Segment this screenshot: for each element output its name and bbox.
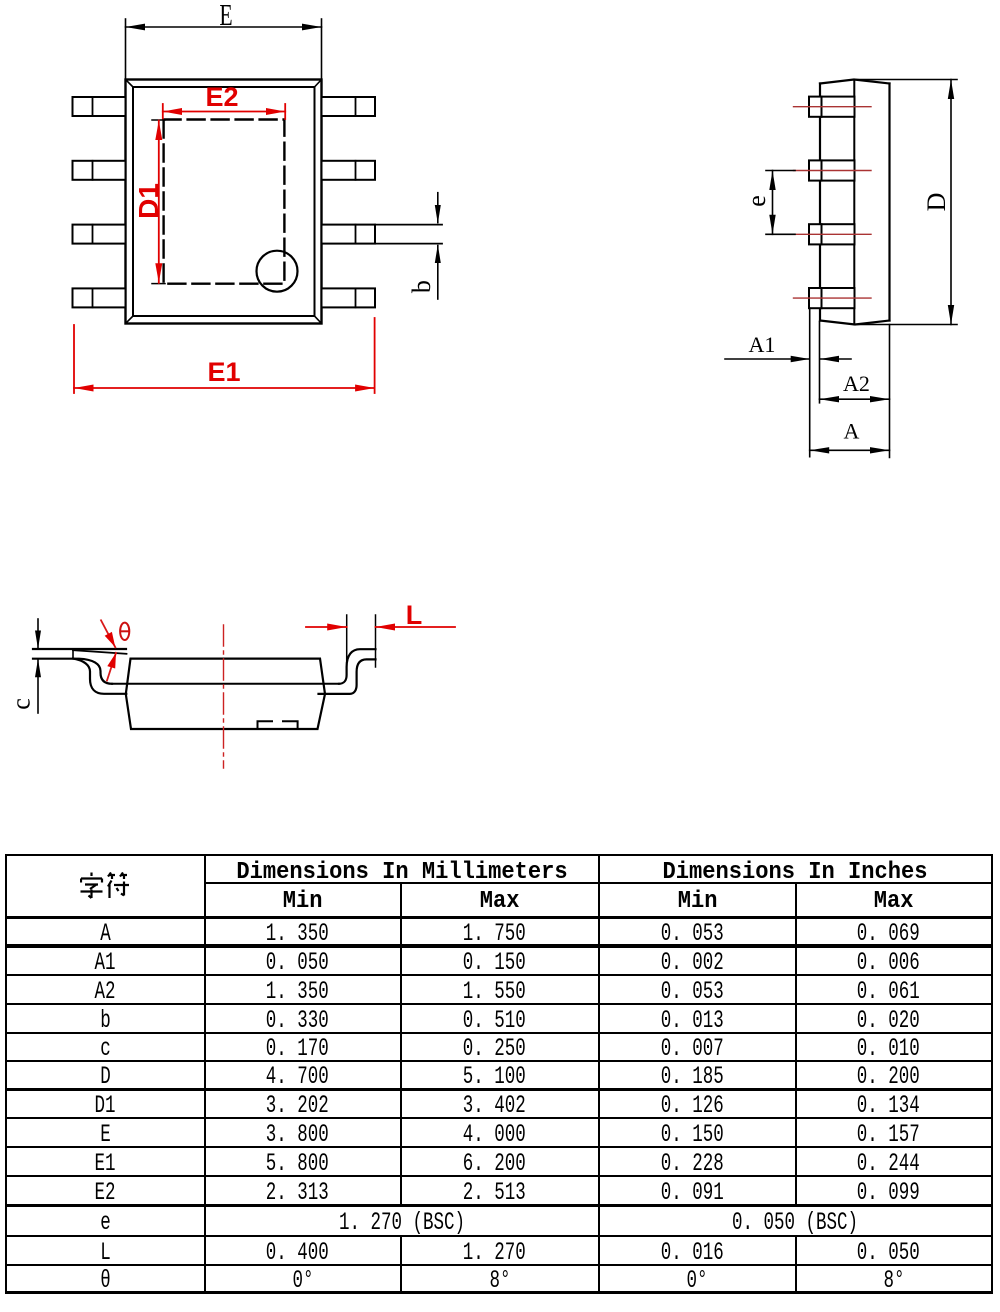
side pin 1 centerline xyxy=(794,106,872,108)
pin 8 (top-right) xyxy=(322,97,376,116)
svg-text:E1: E1 xyxy=(207,357,240,387)
svg-text:A: A xyxy=(843,419,859,444)
mold ejector notch xyxy=(258,721,298,729)
dimension b (right, black) xyxy=(437,193,439,299)
dimension D (black, right) xyxy=(854,80,957,325)
pin 7 (right) xyxy=(322,161,376,180)
svg-text:e: e xyxy=(742,195,771,207)
svg-text:b: b xyxy=(407,280,436,293)
side pin 2 xyxy=(809,160,855,180)
pin 5 (bottom-right) xyxy=(322,288,376,307)
svg-text:A1: A1 xyxy=(749,332,776,357)
left lead tip tick xyxy=(72,649,74,659)
svg-text:L: L xyxy=(406,600,423,630)
side pin 3 xyxy=(809,224,855,244)
pin 1 (top-left) xyxy=(73,97,126,116)
svg-text:D1: D1 xyxy=(133,183,164,219)
body bottom taper xyxy=(820,321,890,325)
package body outer outline xyxy=(126,80,322,324)
pin 3 (left) xyxy=(73,225,126,244)
left lead outer surface xyxy=(73,659,126,694)
dimension theta (red angle leader) xyxy=(101,620,115,647)
right lead inner surface xyxy=(339,649,376,684)
side pin 4 centerline xyxy=(794,297,872,299)
body right wall xyxy=(888,84,890,321)
dimension E2 (red) xyxy=(163,104,285,119)
left lead inner surface xyxy=(33,659,112,684)
body left wall xyxy=(819,84,821,321)
right lead outer surface xyxy=(319,659,376,694)
dimension D1 (red, vertical) xyxy=(152,119,165,121)
dimension E1 (red, bottom) xyxy=(74,318,375,393)
svg-text:E: E xyxy=(219,0,232,32)
package body inner outline xyxy=(133,87,315,316)
body top taper xyxy=(820,80,890,84)
side pin 2 centerline xyxy=(794,170,872,172)
dimension c (black) xyxy=(37,619,39,713)
svg-text:D: D xyxy=(922,193,951,212)
dimension A2 (black) xyxy=(820,325,890,458)
svg-text:E2: E2 xyxy=(205,82,238,112)
svg-text:c: c xyxy=(7,698,36,710)
dimension A1 (black) xyxy=(725,308,851,457)
dimension L (red) xyxy=(347,615,376,667)
left lead theta reference line xyxy=(73,650,127,654)
svg-text:A2: A2 xyxy=(843,371,870,396)
dimension A (black) xyxy=(810,449,890,451)
pin 2 (left) xyxy=(73,161,126,180)
mold parting line xyxy=(853,80,855,325)
side pin 4 xyxy=(809,288,855,308)
dimension E (top, black) xyxy=(126,19,322,79)
lead frame plane line xyxy=(112,683,339,685)
side pin 3 centerline xyxy=(794,233,872,235)
corner chamfer lines xyxy=(126,80,322,324)
pin1 index circle xyxy=(257,251,298,292)
body outline xyxy=(126,659,325,729)
pin 4 (bottom-left) xyxy=(73,288,126,307)
left lead foot top xyxy=(33,648,126,650)
dimension e (black) xyxy=(766,171,795,235)
exposed pad dashed outline xyxy=(164,120,285,284)
side pin 1 xyxy=(809,97,855,117)
center line (red dash-dot) xyxy=(223,625,225,768)
pin 6 (right, with b reference extension) xyxy=(322,225,376,244)
